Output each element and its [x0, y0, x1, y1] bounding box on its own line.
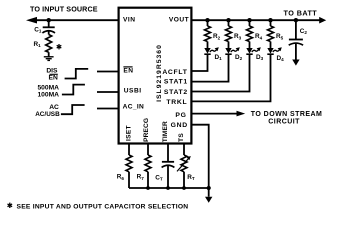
- LED D4: [267, 47, 282, 54]
- svg-text:TO INPUT SOURCE: TO INPUT SOURCE: [30, 5, 98, 14]
- wire rail to R4: [249, 20, 251, 26]
- wire D4 to TRKL: [191, 54, 270, 101]
- capacitor C1: [42, 27, 55, 33]
- wire C2 to ground arrow: [295, 43, 297, 60]
- node rail R5: [268, 18, 272, 22]
- svg-text:SEE INPUT AND OUTPUT CAPACITOR: SEE INPUT AND OUTPUT CAPACITOR SELECTION: [17, 204, 189, 211]
- wire rail to C2: [295, 20, 297, 39]
- label asterisk R1: [57, 44, 62, 49]
- svg-text:TO DOWN STREAM: TO DOWN STREAM: [251, 111, 323, 118]
- wire USBI pin: [97, 91, 119, 93]
- svg-text:EN: EN: [123, 68, 133, 75]
- wire D1 to ACFLT: [191, 54, 207, 71]
- wire AC_IN pin: [97, 108, 119, 110]
- LED D1: [204, 47, 219, 54]
- op-amp U1 ISL9219 IC body: [119, 8, 192, 144]
- logic step symbol EN: [65, 69, 89, 79]
- wire VIN input rail: [33, 19, 119, 21]
- wire R5 to D4: [270, 42, 272, 49]
- svg-text:CIRCUIT: CIRCUIT: [268, 119, 300, 126]
- resistor R3: [226, 26, 232, 42]
- svg-text:100MA: 100MA: [37, 92, 59, 99]
- resistor R7: [145, 155, 151, 172]
- node rail R7: [146, 186, 150, 190]
- LED D2: [225, 47, 240, 54]
- svg-text:STAT2: STAT2: [164, 89, 188, 96]
- node rail R2: [205, 18, 209, 22]
- wire R2 to D1: [207, 42, 209, 49]
- node rail R4: [247, 18, 251, 22]
- svg-text:GND: GND: [171, 122, 188, 129]
- svg-text:VIN: VIN: [123, 17, 136, 24]
- capacitor CT: [162, 162, 175, 168]
- wire TIMER to CT: [167, 144, 169, 162]
- resistor R2: [205, 26, 211, 42]
- wire PRECG to R7: [147, 144, 149, 156]
- svg-text:TRKL: TRKL: [166, 99, 187, 106]
- wire PG to downstream: [191, 113, 238, 115]
- svg-text:ISET: ISET: [126, 125, 133, 141]
- wire D2 to STAT1: [191, 54, 228, 81]
- logic step symbol USBI: [62, 85, 85, 95]
- node input junction: [47, 18, 51, 22]
- node rail R3: [226, 18, 230, 22]
- wire rail to R2: [207, 20, 209, 26]
- wire D3 to STAT2: [191, 54, 249, 91]
- resistor R4: [247, 26, 253, 42]
- arrow to batt: [319, 17, 326, 24]
- wire GND to bottom rail: [191, 125, 208, 188]
- node rail RT: [182, 186, 186, 190]
- svg-text:STAT1: STAT1: [164, 79, 188, 86]
- svg-text:ACFLT: ACFLT: [162, 69, 187, 76]
- node rail CT: [166, 186, 170, 190]
- wire VOUT rail: [191, 19, 320, 21]
- wire EN pin: [97, 71, 119, 73]
- logic step symbol AC_IN: [61, 105, 85, 114]
- wire R7 to rail: [147, 172, 149, 188]
- wire TS to RT: [183, 144, 185, 156]
- resistor R5: [268, 26, 274, 42]
- svg-text:500MA: 500MA: [37, 84, 59, 91]
- wire R4 to D3: [249, 42, 251, 49]
- ground (input): [44, 57, 54, 61]
- ground (main arrow): [205, 197, 212, 203]
- thermistor RT: [177, 155, 191, 172]
- capacitor C2: [289, 40, 303, 46]
- wire GND stub: [208, 188, 210, 197]
- arrow to downstream circuit: [237, 111, 246, 117]
- wire ISET to R6: [128, 144, 130, 156]
- svg-text:AC/USB: AC/USB: [35, 111, 60, 118]
- wire R1 to ground: [48, 52, 50, 56]
- resistor R1: [46, 35, 52, 53]
- wire CT to rail: [167, 166, 169, 188]
- label footnote asterisk: [8, 203, 13, 208]
- svg-text:DIS: DIS: [46, 67, 58, 74]
- LED D3: [246, 47, 260, 54]
- wire RT to rail: [183, 172, 185, 188]
- node GND junction: [207, 186, 211, 190]
- svg-text:USBI: USBI: [124, 88, 142, 95]
- svg-text:TO BATT: TO BATT: [284, 8, 318, 17]
- wire R6 to rail: [128, 172, 130, 188]
- svg-text:PRECG: PRECG: [143, 118, 150, 142]
- svg-text:TIMER: TIMER: [162, 121, 169, 142]
- wire R3 to D2: [228, 42, 230, 49]
- resistor R6: [126, 155, 132, 172]
- svg-text:VOUT: VOUT: [169, 17, 189, 24]
- wire junction to C1: [48, 20, 50, 27]
- wire rail to R5: [270, 20, 272, 26]
- svg-text:TS: TS: [178, 133, 185, 142]
- ground (C2 arrow): [292, 60, 299, 66]
- arrow to input source: [26, 17, 37, 24]
- wire bottom rail: [129, 187, 209, 189]
- svg-text:PG: PG: [175, 112, 186, 119]
- svg-text:AC_IN: AC_IN: [123, 103, 145, 110]
- svg-text:EN: EN: [49, 75, 58, 82]
- wire rail to R3: [228, 20, 230, 26]
- node rail C2: [294, 18, 298, 22]
- wire C1 to R1: [48, 31, 50, 35]
